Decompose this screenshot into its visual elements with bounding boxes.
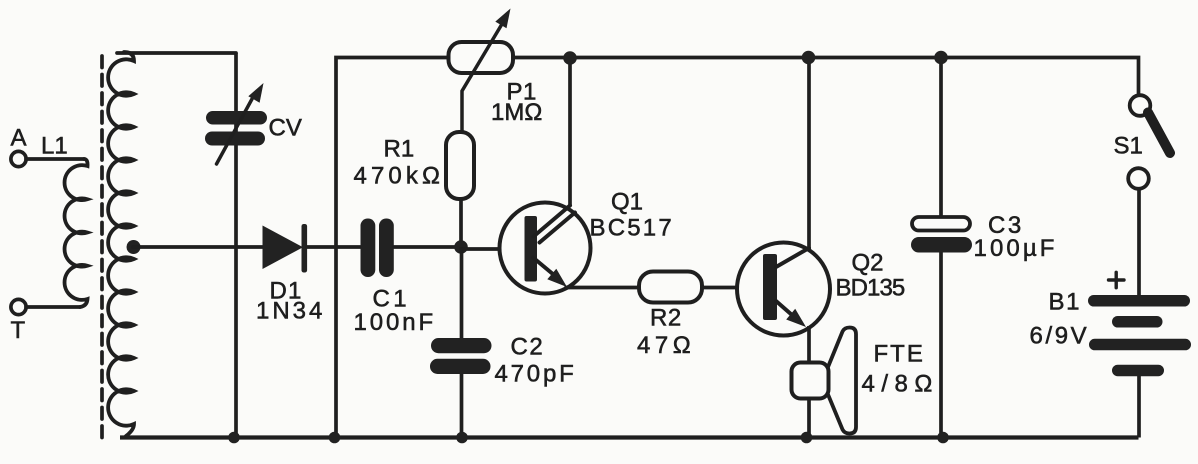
svg-text:A: A <box>11 125 27 152</box>
wire Q1 collector <box>568 58 572 206</box>
svg-text:R2: R2 <box>650 305 682 332</box>
svg-text:L1: L1 <box>41 133 68 160</box>
junction dot base node <box>454 240 468 254</box>
coil L1 primary winding <box>65 159 88 307</box>
wire top rail tank segment <box>117 51 236 55</box>
diode D1 <box>263 224 308 273</box>
svg-text:S1: S1 <box>1114 133 1143 160</box>
wire base node to Q1 base <box>461 247 527 251</box>
junction dot C3 at top rail <box>934 51 948 65</box>
potentiometer P1 <box>449 42 514 73</box>
wire Q1 emitter to R2 <box>566 286 639 290</box>
svg-text:FTE: FTE <box>874 341 925 368</box>
svg-text:100µF: 100µF <box>974 235 1058 262</box>
svg-text:4/8Ω: 4/8Ω <box>862 371 939 398</box>
wire C3 column <box>939 58 943 438</box>
wire C1 to base node <box>394 245 461 249</box>
wire S1 to battery <box>1137 189 1141 295</box>
speaker FTE <box>792 363 829 399</box>
wire R1 to base node <box>459 199 463 247</box>
svg-text:Q2: Q2 <box>852 250 884 277</box>
capacitor C1 <box>361 219 394 278</box>
transistor Q1 <box>500 203 591 294</box>
svg-text:100nF: 100nF <box>354 309 437 336</box>
terminal A <box>11 151 26 166</box>
wire bottom rail <box>120 435 1139 439</box>
svg-text:BD135: BD135 <box>836 275 905 302</box>
variable capacitor CV bottom plate <box>205 132 265 146</box>
svg-text:470pF: 470pF <box>495 361 577 388</box>
svg-text:B1: B1 <box>1049 289 1082 316</box>
transistor Q2 <box>737 243 830 336</box>
svg-text:R1: R1 <box>384 136 415 163</box>
capacitor C3 negative plate <box>911 237 972 253</box>
wire Q2 collector <box>807 58 811 250</box>
wire ground column P1-left to bottom rail <box>336 58 448 438</box>
CV adjustment arrow <box>217 99 253 164</box>
switch S1 <box>1130 95 1151 116</box>
battery B1 plates <box>1088 295 1191 376</box>
wire top supply rail to switch <box>513 58 1139 97</box>
wire terminal A to L1 <box>26 157 84 161</box>
capacitor C2 <box>430 338 492 374</box>
svg-text:6/9V: 6/9V <box>1030 323 1090 350</box>
svg-text:CV: CV <box>269 115 302 142</box>
variable capacitor CV top plate <box>206 111 267 125</box>
wire CV column <box>234 53 238 438</box>
svg-text:T: T <box>11 317 26 344</box>
svg-text:47Ω: 47Ω <box>637 332 695 359</box>
svg-text:C2: C2 <box>511 334 545 361</box>
tap junction dot on L1 <box>127 240 141 254</box>
wire battery to bottom rail <box>1137 376 1141 438</box>
wire R2 to Q2 base <box>702 286 766 290</box>
battery plus sign <box>1109 272 1125 287</box>
junction dot Q1 collector at rail <box>563 51 577 65</box>
wire base node to C2 <box>460 247 464 338</box>
terminal T <box>11 299 26 314</box>
junction dot Q2 collector at rail <box>802 51 816 65</box>
wire D1 to C1 <box>307 245 361 249</box>
resistor R2 <box>639 272 702 303</box>
wire C2 to bottom rail <box>460 374 464 438</box>
core dashed line <box>100 56 104 441</box>
signal wire tap to D1 <box>133 245 263 249</box>
svg-text:470kΩ: 470kΩ <box>354 163 444 190</box>
wire terminal T to L1 <box>26 305 80 309</box>
capacitor C3 positive plate <box>912 217 970 231</box>
wire Q2 emitter to FTE <box>807 326 811 363</box>
P1 wiper arrow <box>462 24 502 132</box>
svg-text:Q1: Q1 <box>611 189 643 216</box>
resistor R1 <box>446 132 474 199</box>
svg-text:1MΩ: 1MΩ <box>491 99 542 126</box>
junction dots bottom rail <box>228 432 949 444</box>
svg-text:1N34: 1N34 <box>256 298 325 325</box>
wire FTE to bottom rail <box>807 399 811 438</box>
svg-text:BC517: BC517 <box>590 215 674 242</box>
coil L1 secondary winding <box>108 52 134 436</box>
